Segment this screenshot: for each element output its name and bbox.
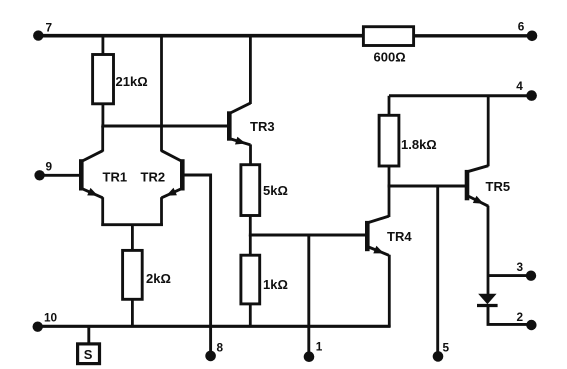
svg-text:8: 8 [217, 341, 224, 355]
wire TR2 emitter vertical [160, 197, 163, 226]
wire TR4 emitter to bottom rail [388, 255, 391, 327]
svg-text:2: 2 [517, 310, 524, 324]
wire pin9 to TR1 base [40, 174, 80, 177]
wire TR3 emitter to R5k [249, 144, 252, 164]
terminal 9 [34, 170, 44, 180]
wire R1k top stub [249, 235, 252, 255]
svg-text:1: 1 [316, 340, 323, 354]
wire TR5 collector from pin4 rail [487, 96, 490, 166]
svg-text:1kΩ: 1kΩ [263, 277, 288, 292]
svg-text:7: 7 [46, 21, 53, 35]
wire R5k bottom stub [249, 216, 252, 237]
terminal 8 [205, 351, 216, 362]
wire bottom rail (pin10 to TR4 emitter) [38, 325, 391, 328]
resistor 1.8k&#937; [379, 115, 399, 166]
wire pin4 rail (R1.8k top / TR5 collector) [389, 94, 532, 97]
wire R2k bottom stub [131, 299, 134, 326]
svg-text:TR4: TR4 [387, 229, 412, 244]
resistor 5k&#937; [241, 165, 260, 216]
wire TR5 emitter down to diode [487, 206, 490, 295]
svg-text:TR5: TR5 [486, 179, 511, 194]
svg-text:3: 3 [517, 260, 524, 274]
wire R21k top stub [102, 36, 105, 55]
svg-text:2kΩ: 2kΩ [146, 271, 171, 286]
wire TR1 emitter vertical [101, 197, 104, 226]
transistor TR1 [81, 151, 102, 198]
wire node C to terminal 1 [307, 235, 310, 357]
terminal 2 [526, 320, 536, 330]
wire to terminal 3 [488, 274, 531, 277]
wire TR2 base to terminal 8 [184, 175, 210, 356]
svg-text:4: 4 [516, 79, 523, 93]
wire R1k bottom stub [249, 304, 252, 326]
wire node B (R1.8k bottom to TR5 base) [388, 185, 465, 188]
wire R2k top stub [131, 225, 134, 251]
wire emitter junction line [101, 223, 163, 226]
svg-text:S: S [84, 347, 93, 362]
terminal 7 [33, 30, 43, 40]
svg-text:10: 10 [44, 311, 58, 325]
terminal 3 [526, 271, 536, 281]
svg-text:6: 6 [518, 20, 525, 34]
svg-text:TR2: TR2 [141, 170, 166, 185]
wire TR2 collector from top rail [160, 36, 163, 152]
wire top supply rail left segment (pin7 to R 600) [38, 34, 364, 38]
svg-text:TR1: TR1 [103, 170, 128, 185]
wire top supply rail right segment (R 600 to pin6) [413, 34, 532, 37]
svg-text:TR3: TR3 [250, 119, 275, 134]
wire R1.8k bottom to TR4 collector [388, 166, 391, 217]
transistor TR5 [467, 166, 488, 207]
resistor 1k&#937; [241, 255, 260, 304]
wire diode cathode to terminal 2 [488, 306, 531, 325]
transistor TR2 [162, 151, 183, 198]
transistor TR3 [229, 103, 250, 145]
wire R21k bottom stub to node A [102, 104, 105, 128]
resistor 21k&#937; [93, 55, 114, 104]
svg-text:5: 5 [443, 341, 450, 355]
wire TR1 collector vertical [101, 126, 104, 152]
transistor TR4 [367, 216, 389, 255]
resistor 2k&#937; [123, 250, 143, 299]
wire TR3 collector from top rail [249, 36, 252, 104]
terminal 4 [526, 90, 537, 101]
terminal 5 [433, 351, 444, 362]
terminal 10 [33, 322, 43, 332]
wire node C (R5k/R1k junction to TR4 base) [249, 234, 365, 237]
terminal 6 [527, 31, 538, 42]
svg-text:1.8kΩ: 1.8kΩ [401, 137, 437, 152]
svg-text:9: 9 [46, 160, 53, 174]
substrate terminal S box [78, 344, 100, 364]
wire stub to substrate box [87, 326, 90, 344]
svg-text:21kΩ: 21kΩ [116, 74, 148, 89]
svg-text:600Ω: 600Ω [374, 50, 406, 65]
wire node A horizontal (TR1 collector to TR3 base) [101, 125, 227, 128]
resistor 600&#937; (horizontal) [363, 27, 413, 46]
wire R1.8k top stub [388, 96, 391, 116]
terminal 1 [304, 351, 315, 362]
diode D1 (anode triangle + cathode bar) [477, 294, 498, 306]
svg-text:5kΩ: 5kΩ [263, 183, 288, 198]
wire node B to terminal 5 [436, 186, 439, 356]
